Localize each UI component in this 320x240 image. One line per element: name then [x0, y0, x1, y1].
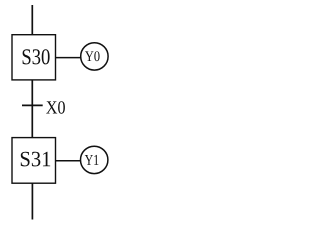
- wire: top vertical lead into step S30: [31, 5, 33, 35]
- transition X0 crossbar: [22, 104, 43, 106]
- label Y1: [85, 155, 99, 165]
- step box S31: [12, 138, 56, 184]
- label S30: [23, 49, 50, 64]
- action coil Y1: [81, 146, 108, 173]
- wire: bottom vertical lead out of S31: [31, 183, 33, 219]
- wire: action connector from S30 to Y0: [56, 57, 81, 59]
- action coil Y0: [81, 43, 108, 70]
- label S31: [21, 152, 50, 167]
- label X0: [46, 101, 65, 114]
- wire: action connector from S31 to Y1: [56, 160, 81, 162]
- wire: vertical link S30 to S31: [31, 80, 33, 138]
- label Y0: [85, 51, 100, 61]
- step box S30: [12, 35, 56, 80]
